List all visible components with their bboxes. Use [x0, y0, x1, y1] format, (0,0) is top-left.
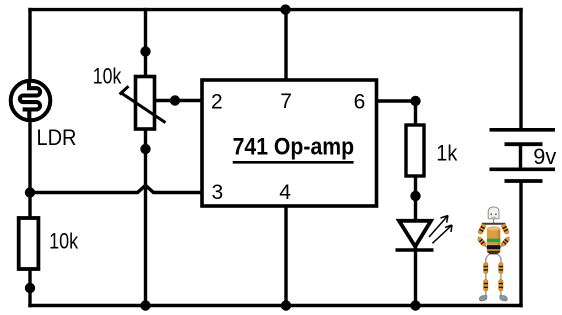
node dot bottom rail LED column — [410, 300, 420, 310]
node dot below 10k resistor — [25, 283, 35, 293]
LED emission arrow 1 — [429, 216, 448, 238]
robot neck — [493, 219, 495, 224]
svg-text:1k: 1k — [436, 140, 458, 165]
svg-text:10k: 10k — [93, 63, 122, 88]
svg-text:7: 7 — [280, 90, 292, 113]
battery plate long bottom — [490, 168, 556, 172]
resistor R1 10k body (bottom left) — [19, 218, 39, 269]
wire LED column — [414, 101, 417, 307]
svg-text:9v: 9v — [533, 144, 556, 169]
wire left rail — [28, 8, 31, 307]
robot left foot — [479, 296, 487, 301]
potentiometer wiper arrow diagonal — [122, 94, 166, 123]
robot eyes — [490, 213, 492, 215]
robot right forearm — [500, 237, 509, 248]
wire pin2 from pot — [152, 99, 204, 102]
robot mouth — [491, 216, 496, 218]
svg-text:741 Op-amp: 741 Op-amp — [233, 134, 355, 161]
svg-text:3: 3 — [212, 181, 224, 204]
svg-text:6: 6 — [354, 90, 366, 113]
node dot above pot — [140, 46, 150, 56]
node dot LDR junction — [25, 187, 35, 197]
svg-text:2: 2 — [211, 90, 223, 113]
robot hip wires — [486, 254, 501, 260]
wire right rail lower — [519, 181, 522, 307]
LED D1 triangle — [399, 221, 431, 247]
battery inner link — [519, 144, 522, 169]
svg-text:10k: 10k — [49, 229, 79, 254]
LDR R? photoresistor circle — [11, 81, 51, 121]
wire right rail upper — [519, 8, 522, 130]
battery short plate 1 — [505, 142, 543, 146]
robot right upper arm resistor — [501, 223, 510, 234]
wire pin4 to bottom rail — [284, 204, 287, 307]
LDR internal serpentine — [20, 81, 40, 120]
robot left forearm — [478, 237, 487, 248]
underline of 741 Op-amp — [233, 161, 354, 164]
robot mascot figure — [477, 207, 510, 301]
node dot below pot — [140, 144, 150, 154]
robot body capacitor — [487, 227, 500, 253]
node dot top rail pin7 — [280, 4, 290, 14]
LED emission arrow 2 — [432, 225, 452, 243]
battery B1 9v plate long top — [490, 128, 556, 132]
resistor R2 1k body — [406, 125, 424, 176]
svg-text:4: 4 — [279, 181, 291, 204]
op-amp U1 741 body — [202, 80, 377, 206]
robot right foot — [500, 296, 508, 301]
potentiometer RV1 10k body — [136, 77, 155, 130]
wire bottom rail — [28, 304, 522, 308]
LED cathode bar — [396, 248, 434, 252]
robot left upper arm resistor — [478, 223, 487, 234]
node dot bottom rail pin4 — [281, 300, 291, 310]
node dot pin6 corner — [410, 96, 420, 106]
battery short plate 2 — [505, 179, 543, 183]
wire pin3 with hop over pot column — [30, 185, 204, 192]
node dot pot wiper wire — [170, 95, 180, 105]
wire pin6 to LED column — [375, 99, 416, 102]
wire pin7 from top rail — [284, 8, 287, 82]
robot left leg — [485, 258, 487, 298]
node dot above LED — [410, 191, 420, 201]
robot right leg — [500, 258, 502, 298]
node dot bottom rail pot column — [140, 300, 150, 310]
wire top rail — [28, 8, 522, 11]
robot shoulder bar — [482, 223, 506, 225]
wire potentiometer column — [144, 8, 147, 307]
robot head (LED bulb) — [488, 207, 499, 219]
potentiometer wiper crossbar — [120, 86, 129, 94]
svg-text:LDR: LDR — [37, 125, 77, 150]
